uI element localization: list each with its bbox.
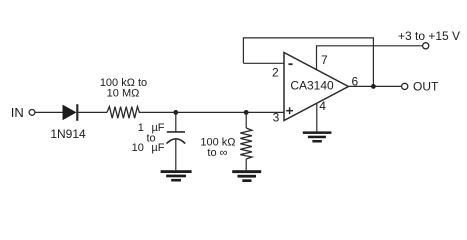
diode D1 1N914 <box>50 104 86 141</box>
node A junction (capacitor tap) <box>173 110 178 115</box>
node output junction <box>371 84 376 89</box>
wire node B to op-amp pin 3 <box>246 111 284 113</box>
resistor R2 100 kOhm to infinity <box>200 128 252 159</box>
capacitor C1 1 uF to 10 uF <box>132 122 186 154</box>
ground (resistor R2) <box>232 170 261 182</box>
wire output pin 6 <box>348 85 401 87</box>
svg-text:10 MΩ: 10 MΩ <box>107 88 140 100</box>
svg-text:1N914: 1N914 <box>50 127 86 141</box>
wire node B down to resistor R2 <box>245 112 247 128</box>
resistor R1 100 kOhm to 10 MOhm <box>100 77 147 118</box>
svg-text:OUT: OUT <box>413 80 439 94</box>
svg-text:3: 3 <box>273 111 280 125</box>
node +3 to +15 V supply terminal <box>398 29 460 49</box>
node OUT terminal <box>402 80 439 94</box>
wire resistor R1 to node A <box>141 111 176 113</box>
ground (capacitor C1) <box>161 170 192 181</box>
wire node A to node B <box>176 111 246 113</box>
svg-text:2: 2 <box>272 66 279 80</box>
wire pin 4 to ground <box>316 104 318 132</box>
node IN terminal <box>11 105 35 120</box>
svg-text:10 µF: 10 µF <box>132 142 165 154</box>
wire pin 7 to supply rail <box>317 46 423 70</box>
wire pin 2 input <box>243 62 284 64</box>
svg-text:to ∞: to ∞ <box>207 147 227 159</box>
wire IN to diode <box>35 111 63 113</box>
svg-text:IN: IN <box>11 105 24 120</box>
wire node A down to capacitor C1 <box>175 112 177 131</box>
ground (op-amp pin 4) <box>303 131 332 142</box>
svg-text:+3 to +15 V: +3 to +15 V <box>398 29 460 43</box>
svg-text:CA3140: CA3140 <box>290 78 334 92</box>
svg-text:4: 4 <box>319 99 326 113</box>
op-amp U1 CA3140 <box>284 53 348 121</box>
wire capacitor C1 to ground <box>175 139 177 170</box>
wire diode to resistor R1 <box>78 111 107 113</box>
node B junction (resistor R2 tap) <box>244 110 249 115</box>
wire resistor R2 to ground <box>245 159 247 170</box>
svg-text:7: 7 <box>321 53 328 67</box>
wire feedback loop (output to pin 2) <box>243 38 373 87</box>
